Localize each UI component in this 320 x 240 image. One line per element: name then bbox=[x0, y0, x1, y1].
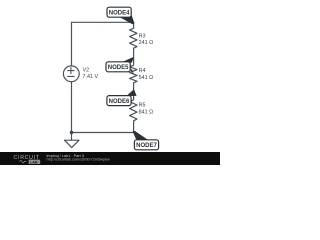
svg-text:R5: R5 bbox=[139, 103, 146, 109]
svg-text:R3: R3 bbox=[139, 34, 146, 40]
svg-text:LAB: LAB bbox=[30, 160, 38, 164]
svg-text:541 Ω: 541 Ω bbox=[139, 75, 154, 81]
svg-text:7.41 V: 7.41 V bbox=[83, 74, 99, 80]
svg-text:841 Ω: 841 Ω bbox=[139, 109, 154, 115]
svg-text:http://circuitlab.com/c6mbr72m: http://circuitlab.com/c6mbr72m5wpkw bbox=[47, 158, 111, 162]
svg-text:NODE5: NODE5 bbox=[108, 65, 129, 71]
svg-text:NODE7: NODE7 bbox=[136, 143, 157, 149]
svg-text:V2: V2 bbox=[83, 68, 90, 74]
svg-text:R4: R4 bbox=[139, 68, 146, 74]
svg-text:NODE6: NODE6 bbox=[109, 99, 130, 105]
svg-text:NODE4: NODE4 bbox=[109, 10, 130, 16]
svg-text:241 Ω: 241 Ω bbox=[139, 40, 154, 46]
